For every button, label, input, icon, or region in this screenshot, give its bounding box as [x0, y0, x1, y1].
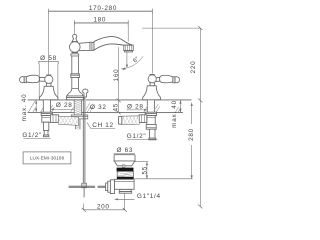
drain threaded section	[117, 172, 133, 177]
spout shank lower threaded	[76, 119, 80, 129]
pop-up rod knob	[83, 89, 88, 97]
right valve flange	[145, 112, 156, 115]
right handle bell	[143, 86, 161, 100]
svg-text:Ø 28: Ø 28	[56, 102, 73, 109]
left valve body	[42, 116, 51, 123]
deck bottom line	[28, 111, 184, 113]
left handle lever end cap	[20, 77, 25, 83]
svg-text:G1/2": G1/2"	[22, 132, 42, 139]
svg-text:LUX-EMI-30108: LUX-EMI-30108	[30, 155, 65, 160]
deck hatch around left valve shank	[41, 105, 55, 112]
left valve hex nut	[50, 115, 58, 123]
extension line right handle center	[151, 11, 153, 73]
horizontal rod	[69, 186, 96, 187]
deck top line	[28, 99, 192, 101]
dimension 200	[84, 209, 125, 211]
svg-text:Ø 28: Ø 28	[127, 103, 144, 110]
svg-text:200: 200	[97, 203, 110, 210]
spout tube	[94, 36, 133, 50]
extension line aerator axis	[127, 23, 129, 42]
extension line drain bottom	[135, 178, 193, 180]
pop-up lift rod	[83, 97, 85, 183]
drain flange taper	[114, 161, 135, 166]
left handle lever grip	[26, 75, 39, 83]
left handle ball	[47, 74, 51, 77]
right valve hex nut	[139, 115, 147, 123]
dimension 160/45 vertical line	[118, 47, 120, 112]
drain seal black band	[117, 168, 134, 172]
left handle neck	[47, 83, 51, 86]
right valve body	[147, 116, 155, 128]
right handle lever end cap	[175, 77, 180, 83]
drain body: flange	[114, 155, 135, 161]
spout column collar	[71, 74, 80, 78]
drain tee body	[115, 179, 135, 189]
mounting washer	[71, 115, 88, 119]
dimension Ø58 line	[39, 60, 58, 62]
right handle neck	[150, 83, 154, 86]
right valve tail	[150, 129, 155, 138]
dimension 55 line	[135, 161, 148, 163]
label CH 12	[87, 123, 115, 129]
left valve lower body	[43, 122, 48, 130]
extension line spout axis	[73, 23, 75, 34]
left supply hose	[58, 116, 78, 126]
spout horn collar	[79, 42, 90, 50]
left valve shank	[43, 100, 50, 112]
swivel arc 6deg	[121, 56, 143, 69]
spout base	[67, 89, 82, 96]
clevis block	[82, 183, 87, 188]
spout onion ball	[70, 42, 81, 53]
svg-text:280: 280	[188, 128, 195, 141]
svg-text:max. 40: max. 40	[21, 94, 28, 122]
deck hatch left edge	[29, 100, 37, 112]
dimension max40 left line	[35, 100, 37, 112]
spout aerator	[124, 45, 133, 50]
svg-text:Ø 58: Ø 58	[40, 55, 57, 62]
left handle lever connector	[40, 77, 46, 81]
svg-text:Ø 32: Ø 32	[90, 104, 107, 111]
dimension 180 line	[74, 20, 128, 25]
drain tailpipe	[120, 189, 132, 191]
svg-text:220: 220	[190, 61, 197, 74]
svg-text:CH 12: CH 12	[92, 122, 114, 129]
left valve flange	[41, 112, 52, 115]
spout column	[72, 56, 79, 74]
spout column lower	[72, 77, 79, 88]
right handle lever connector	[156, 77, 160, 81]
dimension 220/280 vertical line right	[199, 28, 201, 206]
svg-text:G1"1/4: G1"1/4	[137, 193, 161, 200]
svg-text:180: 180	[93, 16, 106, 23]
deck hatch around spout shank	[71, 103, 93, 112]
dimension 170-280 line	[49, 9, 153, 14]
svg-text:max. 40: max. 40	[171, 100, 178, 128]
svg-text:45: 45	[112, 103, 119, 112]
left handle bell	[39, 86, 58, 100]
right valve shank	[147, 100, 154, 112]
extension line spout top to right	[142, 27, 200, 29]
right hose end cap	[119, 117, 122, 125]
leader line under left Ø28	[51, 108, 74, 110]
product code box	[23, 152, 71, 164]
spout finial	[72, 34, 77, 41]
svg-text:Ø 63: Ø 63	[116, 147, 133, 154]
spout neck rings	[71, 53, 79, 56]
drain lower seal black band	[117, 177, 134, 180]
deck hatch right edge	[176, 107, 181, 112]
extension line left handle center	[48, 11, 50, 75]
left handle lever ring	[24, 77, 26, 83]
rod lower stub	[83, 188, 85, 198]
right handle lever grip	[160, 75, 173, 83]
spout threaded shank below deck	[74, 99, 81, 115]
dimension line deck-to-drain right	[191, 103, 193, 179]
svg-text:55: 55	[141, 166, 148, 175]
right handle ball	[150, 73, 154, 76]
drain set screw	[122, 164, 125, 167]
label G1 1/4	[115, 198, 135, 200]
dimension max40 right line	[180, 100, 182, 112]
svg-text:170-280: 170-280	[89, 5, 117, 12]
svg-text:160: 160	[113, 69, 120, 82]
right handle lever ring	[173, 77, 175, 83]
drain tee nut	[106, 183, 108, 190]
left valve tail	[44, 130, 48, 135]
right supply hose	[122, 116, 139, 125]
deck hatch around right valve shank	[144, 104, 160, 112]
